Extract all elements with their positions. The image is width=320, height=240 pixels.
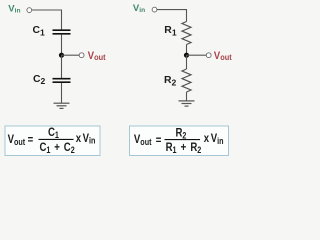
formula Vout = C1/(C1+C2) x Vin — [8, 126, 96, 155]
wire node A to C2 — [61, 55, 63, 78]
capacitor C2 — [53, 79, 71, 83]
svg-text:C1 + C2: C1 + C2 — [40, 141, 76, 155]
formula box (capacitive divider) — [5, 126, 100, 156]
fraction bar (right formula) — [165, 139, 201, 141]
svg-text:=: = — [156, 134, 162, 147]
wire node A to Vout terminal — [62, 54, 80, 56]
formula Vout = R2/(R1+R2) x Vin — [134, 126, 224, 155]
svg-text:C2: C2 — [33, 74, 46, 86]
wire C1 to node A — [61, 35, 63, 56]
wire Vin to C1 — [32, 10, 62, 30]
capacitor C1 — [53, 30, 71, 34]
resistor R1 label — [164, 25, 177, 37]
terminal Vin (left) — [27, 8, 32, 13]
wire C2 to ground — [61, 83, 63, 103]
terminal Vout (left) — [79, 53, 84, 58]
terminal Vout (right) — [206, 53, 211, 58]
ground (left) — [54, 103, 70, 108]
svg-text:R2: R2 — [164, 75, 177, 87]
svg-text:Vin: Vin — [133, 3, 145, 14]
resistor R1 — [182, 22, 191, 45]
node Vin (right) label — [133, 3, 145, 14]
fraction bar (left formula) — [39, 138, 74, 140]
ground (right) — [179, 101, 195, 106]
node A junction dot — [59, 53, 64, 58]
node B junction dot — [184, 53, 189, 58]
wire Vin to R1 — [157, 10, 187, 22]
capacitor C2 label — [33, 74, 46, 86]
svg-text:x: x — [204, 132, 209, 145]
svg-text:C1: C1 — [33, 25, 46, 37]
node Vin (left) label — [8, 4, 20, 15]
svg-text:Vout: Vout — [214, 50, 232, 62]
node Vout (left) label — [88, 50, 106, 62]
wire R1 to node B — [186, 45, 188, 56]
resistor R2 label — [164, 75, 177, 87]
svg-text:Vout: Vout — [88, 50, 106, 62]
svg-text:R1: R1 — [164, 25, 177, 37]
terminal Vin (right) — [152, 7, 157, 12]
svg-text:Vin: Vin — [8, 4, 20, 15]
formula box (resistive divider) — [130, 126, 229, 156]
svg-text:x: x — [76, 132, 81, 145]
resistor R2 — [182, 69, 191, 92]
wire node B to Vout terminal — [187, 54, 207, 56]
svg-text:=: = — [28, 134, 34, 147]
node Vout (right) label — [214, 50, 232, 62]
svg-text:R1 + R2: R1 + R2 — [166, 141, 202, 155]
wire node B to R2 — [186, 55, 188, 69]
wire R2 to ground — [186, 92, 188, 101]
capacitor C1 label — [33, 25, 46, 37]
